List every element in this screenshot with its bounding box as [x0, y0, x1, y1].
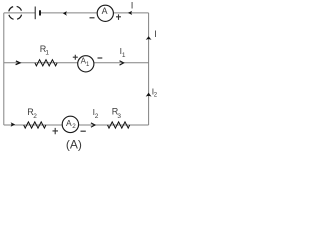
label I1	[120, 46, 126, 59]
resistor R2	[24, 122, 46, 128]
plus sign (ammeter A1)	[73, 55, 78, 60]
svg-text:2: 2	[33, 113, 37, 120]
arrow I (right wire, pointing up)	[146, 36, 152, 40]
label R2	[27, 107, 37, 120]
label I2 (right)	[152, 87, 158, 99]
label R3	[112, 107, 122, 120]
label R1	[40, 44, 50, 57]
wire left vertical	[3, 13, 5, 125]
minus sign (ammeter A)	[90, 17, 95, 19]
plus sign (ammeter A)	[116, 14, 121, 20]
svg-text:2: 2	[154, 93, 158, 99]
svg-text:1: 1	[45, 50, 49, 57]
ammeter A1	[78, 56, 94, 72]
svg-text:1: 1	[122, 52, 126, 59]
minus sign (ammeter A2)	[81, 130, 86, 132]
battery cell: short thick plate	[39, 10, 41, 15]
svg-text:3: 3	[117, 113, 121, 120]
label I2 (bottom)	[93, 107, 99, 120]
minus sign (ammeter A1)	[98, 57, 103, 59]
arrow I1 (middle wire, chevron right)	[120, 61, 124, 65]
arrow I2 (right wire, pointing up)	[146, 93, 152, 97]
svg-text:(A): (A)	[66, 138, 82, 152]
svg-text:2: 2	[72, 123, 76, 130]
wire middle horizontal	[4, 62, 149, 64]
svg-text:2: 2	[95, 113, 99, 120]
svg-text:I: I	[131, 0, 134, 11]
arrow current (top wire mid, pointing left)	[63, 11, 67, 16]
ammeter A	[97, 5, 113, 21]
svg-text:A: A	[66, 118, 72, 128]
wire top horizontal (gap at battery)	[4, 12, 149, 14]
arrow (bottom wire left, pointing right)	[11, 122, 16, 127]
battery cell: long plate	[34, 7, 36, 20]
plus sign (ammeter A2)	[53, 128, 59, 134]
ammeter A2	[62, 116, 78, 132]
wire right vertical	[148, 13, 150, 125]
source (dashed circle)	[9, 6, 22, 19]
wire bottom horizontal	[4, 124, 149, 126]
arrow (middle wire left, pointing right)	[16, 61, 20, 65]
resistor R3	[108, 122, 130, 128]
arrow I2 (bottom wire, chevron right)	[91, 123, 95, 127]
resistor R1	[35, 60, 57, 66]
svg-text:I: I	[154, 29, 157, 39]
arrow I (top right, pointing left)	[128, 11, 132, 15]
svg-text:A: A	[102, 6, 108, 16]
